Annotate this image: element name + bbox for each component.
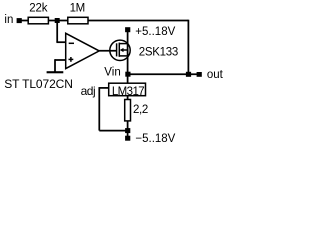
wire U2 bottom to R3: [127, 96, 129, 100]
svg-text:LM317: LM317: [112, 86, 144, 98]
wire supply node to drain and source to Vin node: [127, 32, 129, 84]
wire R1 to node A: [48, 20, 57, 22]
wire R3 to bottom node: [127, 121, 129, 131]
wire in terminal to R1: [19, 20, 29, 22]
svg-text:−5..18V: −5..18V: [135, 133, 175, 145]
transistor Q1 2SK133: [117, 43, 128, 57]
terminal negative supply: [125, 136, 130, 141]
terminal in: [17, 18, 22, 23]
svg-text:adj: adj: [81, 84, 96, 98]
ground: [47, 71, 64, 73]
resistor R1 22k: [28, 17, 48, 24]
bulk arrow: [120, 48, 124, 52]
node A junction: [55, 18, 60, 23]
svg-text:out: out: [207, 69, 224, 81]
transistor Q1 body circle: [110, 40, 130, 60]
wire node A down: [56, 20, 58, 43]
drain horizontal: [119, 43, 127, 45]
svg-text:22k: 22k: [29, 3, 47, 15]
svg-text:2SK133: 2SK133: [139, 46, 178, 58]
wire bottom node to negative terminal: [127, 131, 129, 139]
source horizontal: [119, 55, 127, 57]
svg-text:ST TL072CN: ST TL072CN: [4, 77, 73, 91]
wire feedback vertical: [187, 20, 189, 75]
wire noninverting input: [55, 59, 66, 61]
svg-text:Vin: Vin: [104, 67, 120, 79]
svg-text:1M: 1M: [70, 3, 85, 15]
svg-text:2,2: 2,2: [133, 104, 148, 116]
wire Vin node to out: [128, 73, 199, 75]
op-amp U1: [66, 33, 100, 68]
wire adj left: [99, 87, 108, 89]
regulator U2 LM317 box: [109, 83, 146, 96]
terminal positive supply node: [125, 27, 130, 32]
svg-text:in: in: [4, 14, 13, 26]
gate bar: [116, 43, 118, 56]
op-amp minus sign: [69, 42, 74, 44]
bulk horizontal: [123, 49, 128, 51]
node bottom junction: [125, 128, 130, 133]
resistor R2 1M: [68, 17, 88, 24]
wire inverting input: [56, 41, 65, 43]
wire adj vertical: [98, 87, 100, 131]
wire adj bottom: [99, 130, 127, 132]
svg-text:+5..18V: +5..18V: [135, 26, 175, 38]
channel bar: [118, 43, 120, 57]
wire node A to R2: [57, 20, 68, 22]
op-amp plus sign: [69, 58, 74, 60]
wire R2 to feedback corner: [88, 20, 188, 22]
terminal out: [197, 72, 202, 77]
node out junction: [186, 72, 191, 77]
wire opamp output to Q1 gate: [99, 50, 116, 52]
wire noninverting to ground: [54, 59, 56, 71]
resistor R3 2,2: [125, 100, 131, 121]
node Vin junction: [125, 72, 130, 77]
